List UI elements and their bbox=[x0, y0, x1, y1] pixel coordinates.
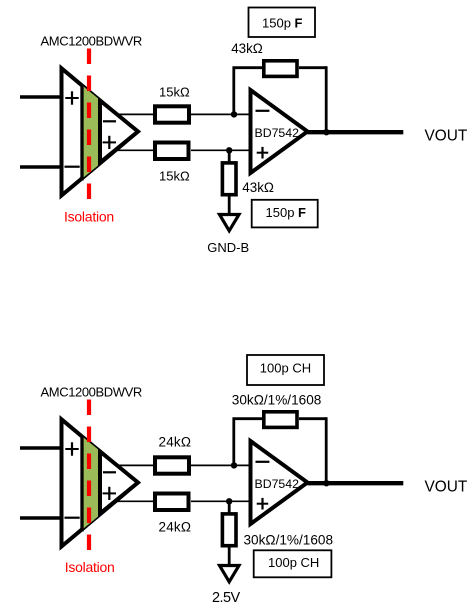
isolation barrier chord line (circuit 2) bbox=[80, 436, 83, 532]
U1 inner - symbol bbox=[103, 120, 116, 122]
U2 non-inverting + symbol bbox=[257, 147, 269, 159]
output node junction bbox=[323, 129, 329, 135]
svg-text:30kΩ/1%/1608: 30kΩ/1%/1608 bbox=[244, 532, 334, 547]
svg-text:100p CH: 100p CH bbox=[260, 360, 311, 375]
capacitor note box 150pF (bottom) bbox=[252, 200, 318, 228]
U3 inner + symbol bbox=[103, 487, 116, 500]
isolation barrier red dashed line (circuit 2) bbox=[87, 400, 91, 551]
capacitor note box 100p CH (bottom) bbox=[254, 550, 332, 577]
wire input B (bottom-left) bbox=[20, 165, 63, 169]
junction node at inverting input bbox=[231, 111, 237, 117]
wire R8 to 2.5V node bbox=[228, 546, 231, 564]
output node junction (circuit 2) bbox=[323, 480, 329, 486]
wire feedback right vertical to output (circuit 2) bbox=[325, 417, 328, 483]
wire R4 to ground bbox=[228, 195, 231, 213]
svg-text:Isolation: Isolation bbox=[65, 559, 115, 575]
wire R2 to op-amp non-inverting input bbox=[191, 149, 250, 151]
wire input A (top-left) bbox=[20, 95, 63, 99]
wire feedback right horizontal (circuit 2) bbox=[299, 417, 326, 420]
isolation amplifier U1 outer triangle bbox=[62, 68, 138, 195]
wire output to VOUT bbox=[308, 130, 404, 134]
wire feedback left vertical + top bbox=[234, 68, 262, 115]
isolation barrier red dashed line bbox=[87, 49, 91, 200]
isolation amplifier U1 inner triangle bbox=[100, 101, 138, 163]
resistor R3 43k feedback bbox=[264, 61, 297, 77]
svg-text:BD7542: BD7542 bbox=[255, 126, 300, 140]
svg-text:VOUT: VOUT bbox=[425, 127, 468, 144]
svg-text:15kΩ: 15kΩ bbox=[159, 85, 190, 100]
op-amp U4 BD7542 bbox=[251, 441, 308, 524]
isolation barrier chord line bbox=[80, 85, 83, 181]
junction node at non-inverting input (circuit 2) bbox=[226, 498, 232, 504]
capacitor note box 150pF (top) bbox=[249, 8, 316, 38]
U1 inner + symbol bbox=[103, 136, 116, 149]
svg-text:30kΩ/1%/1608: 30kΩ/1%/1608 bbox=[232, 392, 322, 407]
svg-text:24kΩ: 24kΩ bbox=[159, 519, 192, 534]
U3 input + symbol bbox=[65, 442, 78, 455]
svg-text:150p F: 150p F bbox=[266, 205, 307, 220]
svg-text:BD7542: BD7542 bbox=[255, 477, 300, 491]
ground symbol GND-B bbox=[220, 215, 240, 231]
capacitor note box 100p CH (top) bbox=[247, 355, 324, 385]
isolation amplifier U3 outer triangle bbox=[62, 419, 138, 546]
svg-text:43kΩ: 43kΩ bbox=[231, 41, 263, 56]
isolation barrier green shading (circuit 2) bbox=[82, 436, 139, 529]
wire feedback right vertical to output bbox=[325, 66, 328, 132]
wire non-inverting node down to R8 bbox=[228, 501, 231, 513]
wire output to VOUT (circuit 2) bbox=[308, 481, 404, 485]
junction node at non-inverting input bbox=[226, 147, 232, 153]
wire R5 to op-amp inverting input bbox=[191, 464, 250, 466]
junction node at inverting input (circuit 2) bbox=[231, 462, 237, 468]
resistor R2 15k (bottom) bbox=[155, 143, 189, 160]
resistor R7 30k feedback bbox=[264, 412, 297, 428]
resistor R5 24k (top) bbox=[155, 457, 189, 473]
wire non-inverting node down to R4 bbox=[228, 150, 231, 162]
wire input B (bottom-left, circuit 2) bbox=[20, 516, 63, 520]
U1 input + symbol bbox=[65, 91, 78, 104]
wire feedback left vertical + top (circuit 2) bbox=[234, 419, 262, 466]
svg-text:15kΩ: 15kΩ bbox=[159, 168, 190, 183]
isolation barrier green shading bbox=[82, 85, 139, 178]
wire input A (top-left, circuit 2) bbox=[20, 446, 63, 450]
svg-text:2.5V: 2.5V bbox=[212, 590, 241, 606]
svg-text:150p F: 150p F bbox=[262, 16, 303, 31]
svg-text:AMC1200BDWVR: AMC1200BDWVR bbox=[41, 385, 142, 400]
U4 inverting - symbol bbox=[256, 461, 270, 463]
resistor R4 43k to ground bbox=[222, 163, 236, 195]
wire U3 output top (to R5) bbox=[102, 464, 153, 466]
wire U1 output bottom (to R2) bbox=[102, 149, 153, 151]
resistor R1 15k (top) bbox=[155, 106, 189, 122]
U4 non-inverting + symbol bbox=[257, 498, 269, 510]
svg-text:AMC1200BDWVR: AMC1200BDWVR bbox=[41, 34, 142, 49]
svg-text:VOUT: VOUT bbox=[425, 478, 468, 495]
U2 inverting - symbol bbox=[256, 110, 270, 112]
resistor R8 30k to 2.5V bbox=[222, 514, 236, 546]
U3 inner - symbol bbox=[103, 471, 116, 473]
svg-text:43kΩ: 43kΩ bbox=[242, 180, 274, 195]
op-amp U2 BD7542 bbox=[251, 90, 308, 173]
svg-text:24kΩ: 24kΩ bbox=[159, 435, 192, 450]
isolation amplifier U3 inner triangle bbox=[100, 452, 138, 514]
U1 input - symbol bbox=[65, 166, 80, 168]
resistor R6 24k (bottom) bbox=[155, 494, 189, 511]
U3 input - symbol bbox=[65, 517, 80, 519]
wire U3 output bottom (to R6) bbox=[102, 500, 153, 502]
svg-text:Isolation: Isolation bbox=[64, 208, 114, 224]
wire feedback right horizontal bbox=[299, 66, 326, 69]
svg-text:100p CH: 100p CH bbox=[268, 555, 319, 570]
svg-text:GND-B: GND-B bbox=[207, 240, 249, 255]
wire R6 to op-amp non-inverting input bbox=[191, 500, 250, 502]
wire U1 output top (to R1) bbox=[102, 113, 153, 115]
wire R1 to op-amp inverting input bbox=[191, 113, 250, 115]
reference symbol 2.5V (triangle) bbox=[220, 566, 240, 582]
